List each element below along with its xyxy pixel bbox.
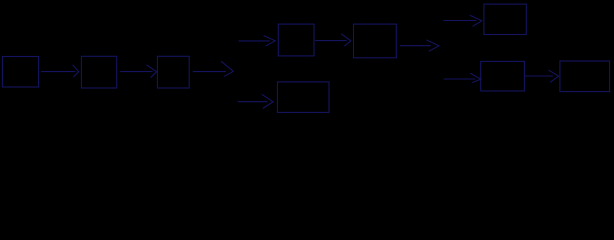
wire fork2-B8 bbox=[444, 78, 475, 80]
node B4 bbox=[278, 24, 314, 56]
arrowhead into B2 bbox=[73, 65, 79, 77]
wire B3-fork1 bbox=[193, 71, 225, 73]
node B8 bbox=[481, 61, 525, 91]
wire fork2-B7 bbox=[444, 20, 476, 22]
wire fork1-B6 bbox=[238, 101, 267, 103]
arrowhead into B4 bbox=[264, 36, 275, 46]
wire B5-fork2 bbox=[400, 45, 430, 47]
arrowhead into B3 bbox=[147, 65, 157, 77]
node B7 bbox=[484, 4, 526, 34]
wire B2-B3 bbox=[121, 71, 153, 73]
arrowhead into B9 bbox=[549, 70, 559, 82]
arrowhead into fork1 bbox=[221, 61, 233, 76]
wire B8-B9 bbox=[525, 75, 553, 77]
arrowhead into fork2 bbox=[427, 40, 439, 51]
node B9 bbox=[560, 61, 610, 92]
node B5 bbox=[354, 24, 397, 58]
wire B4-B5 bbox=[316, 40, 347, 42]
arrowhead into B8 bbox=[471, 73, 481, 82]
node B3 bbox=[157, 56, 189, 88]
arrowhead into B5 bbox=[342, 34, 351, 46]
node B6 bbox=[277, 82, 329, 113]
arrowhead into B6 bbox=[262, 95, 273, 108]
wire B1-B2 bbox=[42, 71, 75, 73]
node B1 bbox=[2, 57, 38, 88]
node B2 bbox=[81, 56, 116, 88]
arrowhead into B7 bbox=[470, 15, 482, 26]
wire fork1-B4 bbox=[239, 40, 270, 42]
